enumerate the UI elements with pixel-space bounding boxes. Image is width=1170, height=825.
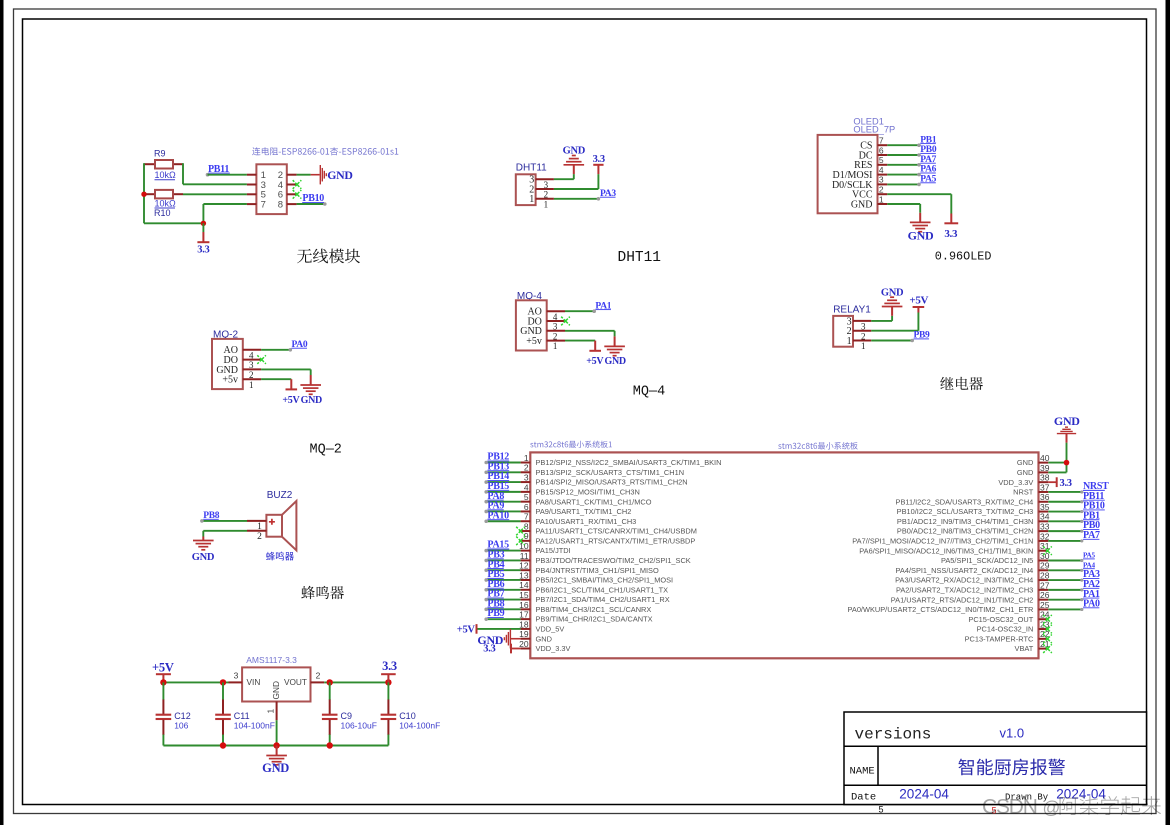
svg-text:PB12/SPI2_NSS/I2C2_SMBAI/USART: PB12/SPI2_NSS/I2C2_SMBAI/USART3_CK/TIM1_…	[536, 458, 722, 467]
svg-text:PB1/ADC12_IN9/TIM3_CH4/TIM1_CH: PB1/ADC12_IN9/TIM3_CH4/TIM1_CH3N	[897, 517, 1033, 526]
IC pin stubs left	[521, 463, 531, 649]
svg-text:GND: GND	[1054, 414, 1080, 428]
svg-text:8: 8	[524, 521, 529, 531]
node PB14	[484, 471, 520, 484]
wire R10 to pin5	[183, 193, 247, 195]
no-connect pin9	[516, 537, 525, 546]
power +5V below MQ-2	[282, 379, 300, 406]
connector DHT11	[516, 163, 549, 210]
svg-text:12: 12	[519, 561, 529, 571]
IC stm32c8t6 body	[530, 452, 1038, 658]
power 3.3 pin20	[483, 644, 520, 655]
node PA9	[484, 501, 520, 514]
svg-text:NRST: NRST	[1013, 488, 1034, 497]
svg-text:6: 6	[879, 145, 884, 155]
wire GND pin	[261, 369, 311, 375]
pins ESP right	[287, 175, 297, 204]
IC stm32c8t6 header right	[778, 442, 857, 450]
power 3.3 above DHT11	[593, 154, 605, 174]
svg-text:5: 5	[879, 805, 884, 815]
wire pin7 down to 3.3	[203, 204, 247, 223]
no-connect pin24	[1043, 615, 1052, 624]
svg-text:5: 5	[524, 492, 529, 502]
svg-text:PA2/USART2_TX/ADC12_IN2/TIM2_C: PA2/USART2_TX/ADC12_IN2/TIM2_CH3	[896, 585, 1033, 594]
capacitor C11	[215, 700, 275, 736]
pins ESP left	[247, 175, 257, 204]
node PB10	[297, 193, 327, 206]
svg-text:13: 13	[519, 570, 529, 580]
IC pin names and numbers	[519, 453, 1050, 653]
node PB8	[200, 511, 247, 523]
node PA1	[1048, 589, 1100, 602]
svg-text:16: 16	[519, 600, 529, 610]
svg-text:33: 33	[1040, 522, 1050, 532]
svg-text:PB9/TIM4_CHR/I2C1_SDA/CANTX: PB9/TIM4_CHR/I2C1_SDA/CANTX	[536, 615, 653, 624]
svg-text:4: 4	[524, 482, 529, 492]
connector MQ-4	[516, 291, 558, 351]
node PB15	[484, 481, 520, 494]
junction GND	[1064, 460, 1070, 466]
svg-text:VDD_3.3V: VDD_3.3V	[536, 644, 571, 653]
svg-text:VOUT: VOUT	[284, 677, 307, 687]
node PB1	[887, 135, 937, 147]
power +5V below MQ-4	[586, 341, 604, 368]
power 3.3 bottom	[197, 223, 209, 255]
svg-text:MQ—4: MQ—4	[633, 385, 665, 400]
node PA3	[1048, 569, 1100, 582]
wire pin2 to +5V	[871, 313, 918, 331]
svg-text:PA8/USART1_CK/TIM1_CH1/MCO: PA8/USART1_CK/TIM1_CH1/MCO	[536, 497, 652, 506]
wire GND pin1	[887, 204, 920, 213]
no-connect pin31	[1043, 546, 1052, 555]
power 3.3 output	[381, 659, 397, 682]
svg-text:10: 10	[519, 541, 529, 551]
watermark CSDN	[982, 796, 1161, 819]
no-connect pin8	[516, 527, 525, 536]
title 智能厨房报警	[958, 759, 1065, 776]
svg-text:+5V: +5V	[152, 660, 174, 674]
svg-text:6: 6	[524, 502, 529, 512]
node PA6	[887, 165, 936, 177]
node PB4	[484, 559, 520, 572]
node PB7	[484, 589, 520, 602]
no-connect pin22	[1043, 635, 1052, 644]
svg-text:GND: GND	[563, 145, 586, 156]
svg-text:32: 32	[1040, 531, 1050, 541]
svg-text:10kΩ: 10kΩ	[155, 170, 177, 180]
svg-text:1: 1	[847, 336, 852, 347]
resistor R10	[144, 190, 183, 218]
power +5V pin18	[457, 624, 521, 636]
svg-text:GND: GND	[536, 634, 552, 643]
ground GND below rail	[262, 746, 289, 775]
wire C12 column	[162, 682, 164, 700]
svg-text:PC14-OSC32_IN: PC14-OSC32_IN	[977, 625, 1034, 634]
svg-text:20: 20	[519, 639, 529, 649]
connector ESP8266-01s1 header	[252, 147, 398, 155]
svg-text:9: 9	[524, 531, 529, 541]
caption 无线模块	[297, 249, 360, 264]
svg-text:PA4/SPI1_NSS/USART2_CK/ADC12_I: PA4/SPI1_NSS/USART2_CK/ADC12_IN4	[896, 566, 1034, 575]
svg-text:+5v: +5v	[526, 336, 542, 347]
svg-text:PB5/I2C1_SMBAI/TIM3_CH2/SPI1_M: PB5/I2C1_SMBAI/TIM3_CH2/SPI1_MOSI	[536, 576, 674, 585]
svg-text:PA1/USART2_RTS/ADC12_IN1/TIM2_: PA1/USART2_RTS/ADC12_IN1/TIM2_CH2	[891, 595, 1034, 604]
svg-text:PB15/SP12_MOSI/TIM1_CH3N: PB15/SP12_MOSI/TIM1_CH3N	[536, 487, 640, 496]
power +5V input	[152, 660, 174, 682]
node PB9	[871, 331, 930, 343]
svg-text:GND: GND	[908, 229, 934, 243]
ground GND top right	[1054, 414, 1080, 443]
svg-text:3: 3	[879, 175, 884, 185]
svg-text:4: 4	[879, 165, 884, 175]
svg-text:PB6/I2C1_SCL/TIM4_CH1/USART1_T: PB6/I2C1_SCL/TIM4_CH1/USART1_TX	[536, 585, 669, 594]
wire top right	[324, 681, 388, 683]
svg-text:3.3: 3.3	[593, 154, 605, 165]
wire GND pins 40/39	[1048, 443, 1066, 473]
junction left	[141, 192, 146, 197]
svg-text:DHT11: DHT11	[516, 163, 547, 174]
node PA8	[484, 491, 520, 504]
svg-text:2: 2	[257, 532, 262, 542]
regulator U AMS1117-3.3	[234, 655, 321, 714]
power 3.3 below OLED	[944, 214, 958, 241]
svg-text:PB14/SPI2_MISO/USART3_RTS/TIM1: PB14/SPI2_MISO/USART3_RTS/TIM1_CH2N	[536, 478, 688, 487]
svg-text:106: 106	[174, 721, 188, 731]
svg-text:104-100nF: 104-100nF	[399, 721, 440, 731]
svg-text:+5V: +5V	[282, 395, 300, 406]
svg-text:104-100nF: 104-100nF	[234, 721, 275, 731]
svg-text:PA7//SPI1_MOSI/ADC12_IN7//TIM3: PA7//SPI1_MOSI/ADC12_IN7//TIM3_CH2/TIM1_…	[852, 537, 1033, 546]
no-connect pin4	[293, 180, 302, 189]
pin GND down	[276, 702, 278, 746]
node PB11	[206, 164, 247, 177]
node PB5	[484, 569, 520, 582]
node PB11	[1048, 491, 1105, 504]
value 蜂鸣器	[266, 552, 294, 561]
svg-text:2024-04: 2024-04	[899, 787, 949, 802]
svg-text:GND: GND	[605, 356, 626, 367]
wire C10 column	[387, 682, 389, 700]
svg-text:PB4/JNTRST/TIM3_CH1/SPI1_MISO: PB4/JNTRST/TIM3_CH1/SPI1_MISO	[536, 566, 659, 575]
wire VCC to 3.3	[887, 194, 951, 213]
svg-text:1: 1	[524, 453, 529, 463]
wire +5v pin	[565, 340, 595, 342]
svg-text:5: 5	[879, 155, 884, 165]
pin VIN	[229, 681, 243, 683]
no-connect DO	[257, 355, 266, 364]
node PB12	[484, 452, 520, 465]
node PB9	[484, 608, 520, 621]
node PA1	[565, 301, 612, 313]
junction bottom	[201, 221, 206, 226]
svg-text:PA10/USART1_RX/TIM1_CH3: PA10/USART1_RX/TIM1_CH3	[536, 517, 637, 526]
node PA15	[484, 540, 520, 553]
junction 3.3/C10	[385, 679, 391, 685]
node PA4	[1048, 561, 1095, 572]
svg-text:3: 3	[234, 670, 239, 680]
svg-text:18: 18	[519, 619, 529, 629]
svg-text:15: 15	[519, 590, 529, 600]
wire top left	[163, 681, 228, 683]
connector ESP8266 body	[256, 164, 286, 214]
svg-text:1: 1	[529, 194, 534, 205]
resistor R9	[144, 149, 183, 181]
svg-text:35: 35	[1040, 502, 1050, 512]
svg-text:PA5/SPI1_SCK/ADC12_IN5: PA5/SPI1_SCK/ADC12_IN5	[941, 556, 1033, 565]
power +5V above RELAY1	[909, 294, 928, 312]
caption 蜂鸣器	[301, 586, 344, 599]
wire pin2 to GND	[203, 531, 247, 537]
svg-text:RELAY1: RELAY1	[833, 304, 871, 315]
node PA3	[554, 189, 616, 201]
svg-text:VDD_3.3V: VDD_3.3V	[998, 478, 1033, 487]
svg-text:37: 37	[1040, 482, 1050, 492]
wire +5v pin	[261, 378, 291, 380]
caption 继电器	[940, 377, 983, 390]
no-connect pin6	[293, 190, 302, 199]
pins DHT11	[536, 179, 554, 199]
no-connect pin23	[1043, 625, 1052, 634]
wire pin3 to GND	[871, 316, 892, 321]
svg-text:PB13/SPI2_SCK/USART3_CTS/TIM1_: PB13/SPI2_SCK/USART3_CTS/TIM1_CH1N	[536, 468, 685, 477]
ground GND above DHT11	[563, 145, 586, 174]
svg-text:GND: GND	[327, 168, 352, 182]
connector MQ-2	[212, 330, 254, 390]
svg-text:DHT11: DHT11	[618, 250, 662, 266]
node PA5	[887, 175, 936, 187]
svg-text:Date: Date	[851, 791, 876, 803]
svg-text:27: 27	[1040, 580, 1050, 590]
connector OLED_7P body	[818, 135, 884, 213]
svg-text:GND: GND	[881, 287, 904, 298]
wire left vertical R9/R10 to 3.3	[144, 163, 203, 223]
ground GND below MQ-4	[604, 336, 626, 367]
wire pin2 to 3.3	[554, 174, 599, 189]
node PB0	[1048, 520, 1100, 533]
wire GND pin	[565, 331, 615, 337]
wire pin3 to GND	[554, 174, 574, 179]
svg-text:GND: GND	[262, 761, 289, 775]
svg-text:R10: R10	[154, 208, 171, 218]
svg-text:17: 17	[519, 610, 529, 620]
node PA2	[1048, 579, 1100, 592]
svg-text:106-10uF: 106-10uF	[341, 721, 377, 731]
svg-text:v1.0: v1.0	[1000, 726, 1025, 741]
ground GND flag pin19	[477, 629, 520, 648]
svg-text:PA11/USART1_CTS/CANRX/TIM1_CH4: PA11/USART1_CTS/CANRX/TIM1_CH4/USBDM	[536, 527, 697, 536]
node PB1	[1048, 510, 1100, 523]
svg-text:GND: GND	[301, 395, 322, 406]
junction gnd bottom	[273, 742, 279, 748]
svg-text:3.3: 3.3	[1060, 478, 1072, 489]
svg-text:CSDN: CSDN	[982, 796, 1037, 819]
title block frame	[844, 712, 1147, 805]
wire bottom rail	[163, 745, 388, 747]
capacitor C9	[322, 700, 377, 736]
ground GND flag pin2	[297, 165, 353, 184]
svg-text:1: 1	[861, 341, 866, 351]
wire C9 column	[329, 682, 331, 700]
pins BUZ2	[247, 521, 266, 531]
svg-text:3.3: 3.3	[197, 245, 209, 256]
svg-text:+5V: +5V	[909, 294, 928, 306]
svg-text:PA12/USART1_RTS/CANTX/TIM1_ETR: PA12/USART1_RTS/CANTX/TIM1_ETR/USBDP	[536, 536, 696, 545]
no-connect DO	[561, 317, 570, 326]
caption MQ-2	[310, 443, 342, 458]
svg-text:PB0/ADC12_IN8/TIM3_CH3/TIM1_CH: PB0/ADC12_IN8/TIM3_CH3/TIM1_CH2N	[897, 527, 1033, 536]
svg-text:26: 26	[1040, 590, 1050, 600]
junction C9 bottom	[327, 742, 333, 748]
svg-text:1: 1	[266, 709, 276, 714]
svg-text:VBAT: VBAT	[1015, 644, 1034, 653]
svg-text:39: 39	[1040, 463, 1050, 473]
svg-text:R9: R9	[154, 149, 166, 159]
svg-text:38: 38	[1040, 473, 1050, 483]
connector RELAY1	[833, 304, 871, 351]
svg-text:@: @	[1043, 798, 1061, 818]
ground GND above RELAY1	[881, 287, 904, 316]
node PA0	[261, 340, 308, 352]
svg-text:1: 1	[544, 199, 549, 209]
node PA7	[1048, 530, 1100, 543]
node PB13	[484, 461, 520, 474]
svg-text:14: 14	[519, 580, 529, 590]
node PA0	[1048, 599, 1100, 612]
svg-text:PB3/JTDO/TRACESWO/TIM2_CH2/SPI: PB3/JTDO/TRACESWO/TIM2_CH2/SPI1_SCK	[536, 556, 691, 565]
wire C11 column	[222, 682, 224, 700]
svg-text:PB8/TIM4_CH3/I2C1_SCL/CANRX: PB8/TIM4_CH3/I2C1_SCL/CANRX	[536, 605, 652, 614]
svg-text:PA5: PA5	[1083, 552, 1095, 560]
svg-text:7: 7	[879, 136, 884, 146]
svg-text:2: 2	[316, 670, 321, 680]
caption MQ-4	[633, 385, 665, 400]
node PB6	[484, 579, 520, 592]
svg-text:34: 34	[1040, 512, 1050, 522]
svg-text:VIN: VIN	[247, 677, 261, 687]
svg-text:7: 7	[524, 512, 529, 522]
power 3.3 pin38	[1048, 477, 1071, 489]
svg-text:GND: GND	[1017, 468, 1033, 477]
svg-text:+5v: +5v	[222, 375, 238, 386]
svg-text:PB10/I2C2_SCL/USART3_TX/TIM2_C: PB10/I2C2_SCL/USART3_TX/TIM2_CH3	[897, 507, 1034, 516]
capacitor C10	[381, 700, 441, 736]
svg-text:versions: versions	[855, 726, 932, 744]
junction C11 bottom	[220, 742, 226, 748]
svg-text:OLED_7P: OLED_7P	[853, 124, 895, 134]
wire R9 to pin3	[183, 163, 247, 184]
svg-text:MQ—2: MQ—2	[310, 443, 342, 458]
pin VOUT	[311, 681, 325, 683]
node PA10	[484, 510, 520, 523]
svg-text:BUZ2: BUZ2	[267, 490, 293, 501]
junction +5V/C12	[160, 679, 166, 685]
svg-text:PC13-TAMPER-RTC: PC13-TAMPER-RTC	[965, 634, 1034, 643]
svg-text:PC15-OSC32_OUT: PC15-OSC32_OUT	[968, 615, 1033, 624]
IC pin stubs right	[1039, 463, 1049, 649]
node PA5	[1048, 552, 1095, 563]
IC stm32c8t6 header left	[530, 441, 612, 448]
svg-text:NAME: NAME	[850, 766, 875, 778]
junction C9 top	[327, 679, 333, 685]
svg-text:2: 2	[879, 185, 884, 195]
svg-text:3.3: 3.3	[483, 644, 495, 655]
svg-text:1: 1	[879, 194, 884, 204]
node PB10	[1048, 501, 1105, 513]
svg-text:PA15/JTDI: PA15/JTDI	[536, 546, 571, 555]
svg-text:GND: GND	[271, 681, 281, 699]
svg-text:10kΩ: 10kΩ	[155, 198, 177, 208]
pins RELAY1	[853, 321, 871, 341]
svg-text:36: 36	[1040, 492, 1050, 502]
svg-text:0.96OLED: 0.96OLED	[935, 249, 992, 263]
node PB8	[484, 598, 520, 611]
svg-text:3.3: 3.3	[944, 228, 958, 240]
no-connect pin21	[1043, 644, 1052, 653]
pins MQ-4	[547, 311, 565, 340]
svg-text:8: 8	[278, 200, 283, 211]
svg-text:1: 1	[553, 341, 558, 351]
node PB0	[887, 145, 937, 157]
svg-text:+5V: +5V	[457, 625, 476, 636]
node PA7	[887, 155, 936, 167]
node PB3	[484, 550, 520, 563]
op display OLED1 refs	[853, 117, 895, 135]
svg-text:2: 2	[524, 463, 529, 473]
svg-text:PA3/USART2_RX/ADC12_IN3/TIM2_C: PA3/USART2_RX/ADC12_IN3/TIM2_CH4	[895, 576, 1033, 585]
svg-text:VDD_5V: VDD_5V	[536, 625, 565, 634]
svg-text:PA0/WKUP/USART2_CTS/ADC12_IN0/: PA0/WKUP/USART2_CTS/ADC12_IN0/TIM2_CH1_E…	[848, 605, 1034, 614]
junction C11 top	[220, 679, 226, 685]
svg-text:3: 3	[524, 472, 529, 482]
svg-text:28: 28	[1040, 570, 1050, 580]
svg-text:+5V: +5V	[586, 356, 604, 367]
pins MQ-2	[243, 350, 261, 379]
svg-text:25: 25	[1040, 600, 1050, 610]
svg-text:PB11/I2C2_SDA/USART3_RX/TIM2_C: PB11/I2C2_SDA/USART3_RX/TIM2_CH4	[896, 497, 1034, 506]
svg-text:PA9/USART1_TX/TIM1_CH2: PA9/USART1_TX/TIM1_CH2	[536, 507, 632, 516]
ground GND below MQ-2	[300, 375, 322, 406]
svg-text:1: 1	[249, 380, 254, 390]
svg-text:PA6/SPI1_MISO/ADC12_IN6/TIM3_C: PA6/SPI1_MISO/ADC12_IN6/TIM3_CH1/TIM1_BK…	[859, 546, 1033, 555]
svg-text:7: 7	[261, 200, 266, 211]
buzzer BUZ2	[257, 490, 296, 550]
svg-text:29: 29	[1040, 561, 1050, 571]
svg-text:3.3: 3.3	[382, 659, 397, 673]
svg-text:AMS1117-3.3: AMS1117-3.3	[246, 655, 297, 665]
svg-text:PB7/I2C1_SDA/TIM4_CH2/USART1_R: PB7/I2C1_SDA/TIM4_CH2/USART1_RX	[536, 595, 670, 604]
svg-text:40: 40	[1040, 453, 1050, 463]
node NRST	[1048, 481, 1109, 494]
svg-text:11: 11	[520, 551, 529, 561]
svg-text:GND: GND	[1017, 458, 1033, 467]
pins OLED	[878, 145, 888, 204]
svg-text:19: 19	[519, 629, 529, 639]
capacitor C12	[156, 700, 191, 736]
ground GND below BUZ2	[192, 537, 215, 563]
svg-text:GND: GND	[851, 199, 873, 210]
ground GND below OLED	[908, 213, 934, 243]
svg-text:GND: GND	[192, 552, 215, 563]
